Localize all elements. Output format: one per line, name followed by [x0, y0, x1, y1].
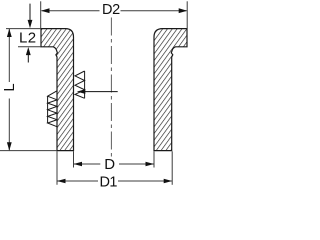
svg-text:D: D — [104, 156, 115, 173]
svg-text:D1: D1 — [100, 174, 118, 190]
svg-text:L2: L2 — [19, 30, 37, 47]
svg-text:D2: D2 — [102, 2, 120, 18]
svg-text:L: L — [2, 83, 18, 91]
